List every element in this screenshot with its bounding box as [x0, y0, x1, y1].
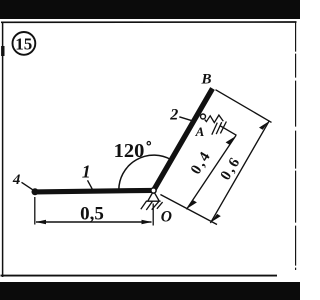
dimension 0,6 lower arrow	[211, 214, 221, 222]
dimension 0,5 right extension line below O	[152, 204, 154, 226]
pin joint circle at O	[151, 188, 156, 193]
wall zigzag at support A	[205, 115, 224, 123]
top black scan band	[0, 0, 300, 19]
dimension 0,6 upper arrow	[259, 121, 269, 129]
svg-text:A: A	[195, 124, 205, 139]
dimension 0,5 line	[36, 221, 152, 223]
svg-text:4: 4	[12, 172, 21, 188]
angle arc 120 degrees	[119, 155, 171, 190]
dimension 0,5 left extension line	[34, 197, 36, 225]
bottom black scan band	[0, 282, 300, 300]
label 2 leader line	[179, 117, 191, 121]
frame bottom border	[1, 275, 278, 277]
dimension 0,4 line	[187, 135, 237, 209]
end dot at point 4	[32, 188, 39, 195]
svg-text:120: 120	[114, 140, 145, 162]
frame top border	[1, 21, 297, 23]
frame left border	[2, 22, 4, 277]
dimension 0,6 line	[210, 121, 269, 224]
svg-text:2: 2	[169, 107, 178, 124]
label 4 leader line	[22, 182, 33, 190]
pin joint circle at A	[201, 114, 206, 119]
variant number circle 15	[13, 32, 36, 55]
label 1 leader line	[88, 180, 93, 189]
wall hatching at support A	[212, 122, 227, 135]
bar 1 (horizontal rod)	[35, 190, 154, 192]
ground hatching at O	[141, 201, 163, 210]
svg-text:O: O	[161, 209, 172, 226]
pin support at O: triangle legs	[146, 191, 160, 201]
svg-text:B: B	[200, 72, 211, 88]
svg-text:0,5: 0,5	[80, 203, 104, 224]
frame right border	[295, 22, 297, 270]
svg-text:0,6: 0,6	[218, 154, 245, 183]
degree symbol circle	[147, 142, 150, 145]
bar 2 (inclined rod)	[154, 89, 213, 191]
dimension 0,5 left arrow	[36, 220, 46, 224]
dimension 0,4 upper arrow	[226, 136, 236, 144]
svg-text:1: 1	[82, 161, 91, 181]
dimension 0,4 lower arrow	[187, 200, 197, 208]
extension line from B	[216, 90, 272, 123]
frame left border ink blob	[1, 46, 4, 56]
dimension 0,5 right arrow	[142, 220, 152, 224]
svg-text:15: 15	[15, 34, 32, 53]
extension line from A	[221, 126, 237, 135]
extension line from O (perpendicular to bar 2)	[160, 195, 217, 225]
